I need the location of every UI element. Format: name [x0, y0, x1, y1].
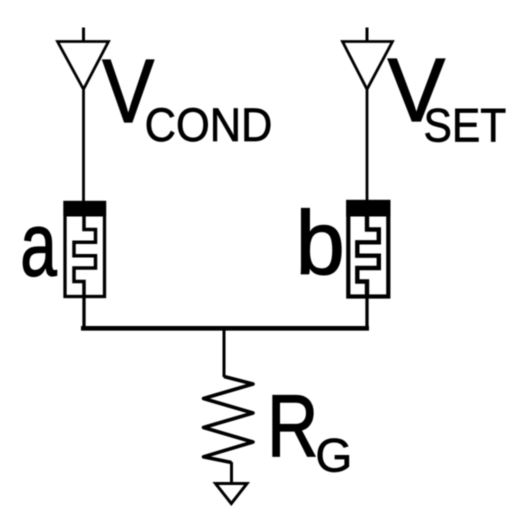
- svg-text:b: b: [296, 194, 345, 294]
- voltage source V_SET symbol (open triangle): [343, 42, 393, 90]
- wire below memristor b: [365, 297, 368, 331]
- horizontal bus wire joining a, b and R_G: [81, 326, 369, 331]
- wire from resistor to ground arrow: [230, 462, 233, 484]
- wire stub above V_SET source: [366, 28, 369, 43]
- svg-text:G: G: [315, 429, 352, 482]
- label R_G: [267, 376, 352, 482]
- svg-text:R: R: [267, 376, 318, 475]
- svg-text:COND: COND: [145, 99, 273, 152]
- memristor a body: [63, 201, 106, 297]
- wire stub above V_COND source: [82, 28, 85, 43]
- wire below memristor a: [82, 297, 85, 331]
- voltage source V_COND symbol (open triangle): [58, 42, 109, 90]
- wire from V_COND to memristor a: [82, 90, 85, 204]
- label V_COND: [102, 42, 272, 152]
- svg-text:SET: SET: [424, 100, 507, 153]
- ground / down-arrow terminal: [216, 484, 248, 504]
- wire from V_SET to memristor b: [366, 90, 369, 204]
- wire from bus down to resistor R_G: [223, 326, 226, 377]
- svg-text:a: a: [20, 195, 57, 295]
- resistor R_G zigzag: [204, 377, 254, 463]
- memristor b body: [346, 200, 390, 297]
- label V_SET: [388, 41, 507, 153]
